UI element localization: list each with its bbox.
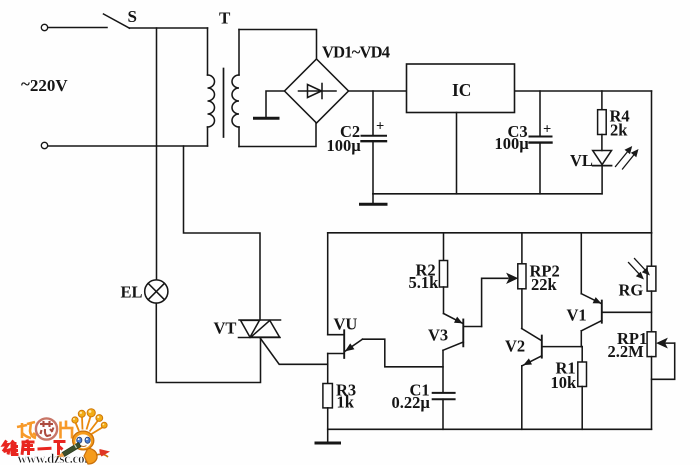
wire triac gate [261,339,328,365]
yi char [38,447,52,451]
svg-text:+: + [543,122,551,138]
wire [327,354,329,384]
transistor V2 [522,329,583,430]
wire [442,350,444,392]
svg-text:VL: VL [570,151,593,170]
capacitor C2 [362,91,387,194]
watermark logo group [3,409,110,465]
wire right vertical [651,91,653,233]
resistor R3 [323,384,333,443]
wire [48,27,107,29]
wm mascot pencil [57,443,82,458]
svg-text:VU: VU [334,315,358,334]
transistor V1 [581,233,651,347]
wire [48,145,208,147]
svg-text:100µ: 100µ [327,136,362,155]
svg-text:1k: 1k [337,393,355,412]
wm pian char (片) orange [61,421,74,439]
transistor V3 [443,314,482,351]
ground (R3) [316,442,340,445]
svg-text:T: T [219,9,231,28]
potentiometer RP1 [647,332,675,430]
potentiometer RP2 [507,233,526,329]
wire bottom rail [328,428,652,430]
wm magnifier ring [36,418,57,439]
svg-text:22k: 22k [531,275,558,294]
capacitor C3 [530,91,552,194]
transistor VU [328,233,363,358]
ground (C2) [361,194,387,205]
wm mascot red dart [99,449,110,457]
wire EL branch [156,28,158,280]
lamp EL [145,280,168,303]
wm mascot crown balls [72,409,107,428]
wire +V rail [349,90,652,92]
xia char [54,440,66,443]
wire [239,30,317,60]
wire control top rail [328,232,652,234]
resistor R2 [439,233,447,314]
wm mascot body [84,448,97,464]
node AC terminal bottom [41,142,47,148]
ku char [26,440,30,442]
svg-text:IC: IC [452,80,471,100]
svg-text:RG: RG [619,281,644,300]
svg-text:100µ: 100µ [495,134,530,153]
wm mascot eyes [77,437,82,443]
resistor R4 [598,91,607,151]
op-amp U1 IC box [407,64,515,113]
photoresistor RG light arrows [629,259,651,280]
triac VT [239,320,281,338]
svg-text:V3: V3 [428,326,448,345]
svg-text:0.22µ: 0.22µ [392,393,431,412]
svg-text:www.dzsc.com: www.dzsc.com [18,451,96,465]
node AC terminal top [41,24,47,30]
wire ground rail [373,193,602,195]
wire triac feed [184,146,261,320]
wm mascot tail [96,454,108,457]
wei char [3,441,8,452]
wm zhao char (找) orange [17,422,37,438]
wm mascot arm [67,448,77,453]
wire VU emitter to V3 base [363,339,444,367]
svg-text:~220V: ~220V [21,75,68,96]
svg-text:5.1k: 5.1k [409,273,440,292]
svg-text:2k: 2k [610,121,628,140]
wm mascot crown stalks [76,417,104,435]
svg-text:2.2M: 2.2M [608,342,645,361]
wire [130,27,208,29]
switch S [104,14,130,28]
svg-text:VD1~VD4: VD1~VD4 [322,43,390,62]
bridge rectifier VD1~VD4 [285,59,349,123]
wire [239,123,316,147]
svg-text:VT: VT [214,319,237,338]
svg-text:V1: V1 [567,305,587,324]
svg-text:+: + [376,119,384,135]
wire IC ground pin [456,113,458,194]
transformer T secondary [232,30,239,147]
capacitor C1 [433,393,455,429]
wire [156,303,260,382]
wire V3 to RP2 wiper [482,278,508,326]
LED VL [593,151,612,194]
wm weiku-yixia text (维库一下) red strokes [3,440,66,456]
wm xin char (芯) red-brown [40,421,54,436]
resistor R1 [578,347,587,430]
wm mascot mouth [81,446,87,447]
ground (bridge) [255,91,285,118]
transformer T primary [208,28,215,146]
photoresistor RG [647,233,656,332]
svg-text:EL: EL [121,283,143,302]
svg-text:S: S [128,7,137,26]
svg-text:V2: V2 [505,337,525,356]
LED VL light arrows [616,146,639,169]
wm mascot head [73,431,94,450]
svg-text:10k: 10k [551,373,578,392]
transformer T core [223,69,225,138]
